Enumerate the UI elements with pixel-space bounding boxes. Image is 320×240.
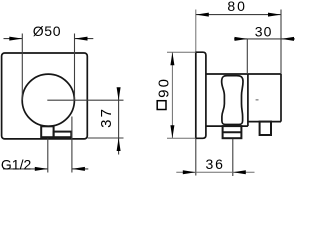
svg-text:37: 37 bbox=[98, 107, 115, 128]
svg-text:Ø50: Ø50 bbox=[33, 23, 62, 39]
svg-text:90: 90 bbox=[155, 77, 172, 98]
svg-text:36: 36 bbox=[206, 156, 225, 172]
svg-text:G1/2: G1/2 bbox=[1, 156, 32, 172]
svg-text:30: 30 bbox=[255, 24, 273, 40]
svg-text:80: 80 bbox=[227, 0, 247, 14]
